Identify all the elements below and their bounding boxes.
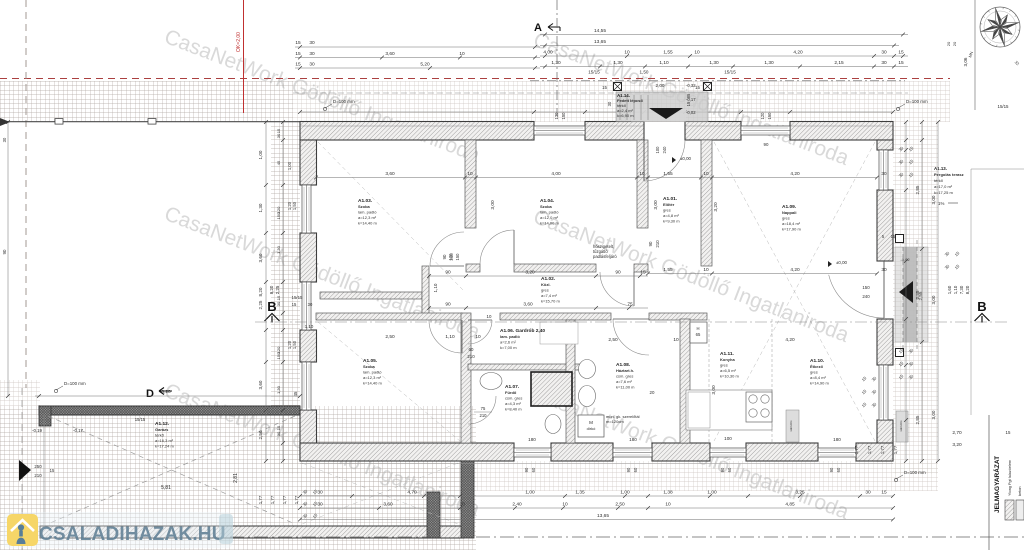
svg-text:A1.13.: A1.13. (934, 166, 947, 171)
room label A1.07 Furdo (505, 384, 522, 412)
svg-text:4,70: 4,70 (407, 490, 417, 496)
svg-text:1,10: 1,10 (445, 334, 455, 340)
corridor top wall b (514, 264, 596, 272)
outer wall bottom segment 2 (551, 443, 613, 461)
svg-text:2,85: 2,85 (915, 185, 920, 194)
svg-text:k=14,00 m: k=14,00 m (540, 221, 559, 226)
legend swatches (1005, 500, 1014, 520)
svg-text:Konyha: Konyha (720, 357, 735, 362)
grid strip left of house (271, 122, 300, 474)
svg-text:60: 60 (633, 467, 638, 472)
svg-text:k=17,90 m: k=17,90 m (782, 227, 801, 232)
svg-text:30: 30 (881, 60, 887, 66)
svg-text:2,40: 2,40 (512, 502, 522, 508)
section marker B left (265, 299, 280, 323)
svg-text:3,06: 3,06 (963, 57, 968, 66)
watermark pattern (161, 25, 852, 524)
svg-text:Pergolás terasz: Pergolás terasz (934, 172, 964, 177)
svg-text:120: 120 (554, 112, 559, 120)
svg-text:a=12,3 m²: a=12,3 m² (363, 375, 382, 380)
right dim line at wall (904, 120, 908, 463)
svg-text:CSALADIHAZAK.HU: CSALADIHAZAK.HU (39, 524, 226, 545)
stamp D=100 bottom right (894, 470, 926, 482)
outer wall bottom segment 3 (652, 443, 710, 461)
wall A1.01|A1.09 (701, 140, 712, 266)
svg-text:30: 30 (2, 137, 7, 142)
door arc A1.07 (468, 396, 496, 424)
svg-text:120: 120 (760, 112, 765, 120)
outer wall top segment 2 (585, 122, 644, 141)
svg-text:3,00: 3,00 (931, 295, 936, 304)
svg-text:k=9,30 m: k=9,30 m (663, 219, 680, 224)
left vertical dim line (7, 122, 9, 396)
svg-text:gres: gres (541, 287, 549, 292)
svg-text:2,00: 2,00 (656, 83, 665, 88)
svg-text:1,77: 1,77 (880, 445, 885, 454)
svg-text:a=6,5 m²: a=6,5 m² (720, 368, 737, 373)
svg-text:1,30: 1,30 (764, 60, 774, 66)
garage dim line top (35, 389, 302, 398)
svg-text:Ytong Pgt falazóelem: Ytong Pgt falazóelem (1008, 460, 1012, 496)
logo background (3, 512, 233, 548)
corridor top wall c (634, 264, 648, 272)
window A1.11 bottom (710, 448, 746, 457)
svg-text:30: 30 (317, 490, 323, 496)
svg-text:1,77: 1,77 (258, 495, 263, 504)
svg-text:1,77: 1,77 (867, 445, 872, 454)
svg-text:Előtér: Előtér (663, 202, 675, 207)
room label A1.12 Garazs (155, 421, 174, 449)
svg-text:100: 100 (724, 436, 732, 441)
svg-text:gres: gres (810, 369, 818, 374)
svg-text:90: 90 (720, 467, 725, 472)
duct H65 (690, 322, 707, 343)
svg-text:1,55: 1,55 (663, 171, 673, 177)
svg-text:13,65: 13,65 (597, 513, 609, 519)
svg-text:2,50: 2,50 (608, 337, 618, 343)
door arc A1.03 (430, 232, 464, 266)
dim chains top left (295, 40, 540, 70)
site boundary line left (0, 121, 300, 123)
arrow mark line end (0, 118, 10, 126)
svg-text:3,60: 3,60 (258, 253, 263, 262)
red dashed property line horizontal (0, 78, 950, 80)
room label A1.03 Szoba (358, 198, 377, 226)
svg-text:90: 90 (626, 467, 631, 472)
outer wall left segment 1 (300, 140, 317, 185)
svg-text:-0,32: -0,32 (686, 83, 696, 88)
svg-text:1,77: 1,77 (893, 445, 898, 454)
grid garage area (0, 406, 476, 550)
svg-text:JELMAGYARÁZAT: JELMAGYARÁZAT (992, 456, 1001, 513)
svg-text:3,60: 3,60 (258, 380, 263, 389)
kitchen sink cab (688, 392, 710, 428)
svg-text:60: 60 (836, 467, 841, 472)
svg-text:dirkó: dirkó (587, 426, 596, 431)
svg-text:1,30: 1,30 (709, 60, 719, 66)
svg-text:3,60: 3,60 (523, 302, 533, 308)
svg-text:4,20: 4,20 (793, 50, 803, 56)
svg-text:k=10,30 m: k=10,30 m (720, 374, 739, 379)
dim chains top (540, 28, 908, 75)
svg-text:90: 90 (648, 241, 653, 246)
svg-text:10: 10 (459, 51, 465, 57)
svg-text:10: 10 (673, 337, 679, 343)
svg-text:k=7,00 m: k=7,00 m (500, 345, 517, 350)
dashdot eaves line (530, 80, 905, 82)
svg-text:15/15: 15/15 (724, 70, 736, 75)
svg-text:1,00: 1,00 (620, 490, 630, 496)
svg-text:4,85: 4,85 (785, 502, 795, 508)
svg-text:60: 60 (531, 467, 536, 472)
svg-text:15: 15 (295, 40, 301, 46)
svg-text:15: 15 (898, 60, 904, 66)
svg-text:30: 30 (276, 133, 281, 138)
svg-text:csm. gres: csm. gres (505, 395, 522, 400)
door arc A1.01 (600, 272, 634, 306)
svg-text:5,81: 5,81 (161, 485, 171, 491)
svg-text:90: 90 (764, 142, 769, 147)
svg-text:k=14,90 m: k=14,90 m (810, 381, 829, 386)
svg-text:150: 150 (561, 112, 566, 120)
svg-text:10: 10 (694, 50, 700, 56)
note szerelotal (606, 414, 640, 424)
window A1.10 right (879, 365, 888, 420)
svg-text:a=4,3 m²: a=4,3 m² (505, 401, 522, 406)
wall A1.03|A1.04 (465, 140, 476, 228)
svg-text:k=14,40 m: k=14,40 m (358, 221, 377, 226)
svg-text:padlásfeljáró: padlásfeljáró (593, 254, 617, 259)
svg-text:1,30: 1,30 (258, 203, 263, 212)
A1.14 canopy area (616, 92, 708, 122)
terrace door arc A1.09 (829, 275, 884, 318)
svg-text:gres: gres (782, 215, 790, 220)
room label A1.11 Konyha (720, 351, 739, 379)
svg-text:150: 150 (862, 285, 870, 290)
svg-text:A: A (534, 22, 542, 34)
svg-text:2,70: 2,70 (952, 430, 962, 436)
svg-text:Nappali: Nappali (782, 210, 796, 215)
section line B-B (255, 321, 1010, 323)
svg-text:m=120cm: m=120cm (606, 419, 624, 424)
room label A1.01 Eloter (663, 196, 680, 224)
svg-text:1,60: 1,60 (947, 285, 952, 294)
svg-text:1,55: 1,55 (663, 50, 673, 56)
outer wall left segment 4 (300, 410, 317, 461)
svg-text:2,25: 2,25 (275, 285, 280, 294)
svg-text:15/15: 15/15 (135, 417, 146, 422)
grid strip right of house (893, 122, 938, 474)
svg-text:15: 15 (295, 62, 301, 68)
svg-text:Étkező: Étkező (810, 364, 823, 369)
svg-text:15: 15 (1006, 430, 1011, 435)
svg-text:B: B (977, 299, 986, 314)
svg-text:csm. gres: csm. gres (616, 373, 633, 378)
svg-text:8,20: 8,20 (965, 285, 970, 294)
svg-text:1,10: 1,10 (305, 324, 314, 329)
svg-text:15: 15 (640, 270, 646, 276)
section marker A (534, 0, 560, 116)
svg-text:250: 250 (34, 464, 42, 469)
svg-text:10: 10 (639, 171, 645, 177)
svg-text:45: 45 (293, 391, 298, 396)
svg-text:10: 10 (467, 171, 473, 177)
wall below house a (427, 492, 440, 538)
svg-text:90: 90 (445, 302, 451, 308)
svg-text:6,20: 6,20 (161, 389, 171, 395)
svg-text:1,30: 1,30 (551, 60, 561, 66)
washer ovals A1.08 (579, 360, 596, 379)
svg-text:a=7,6 m²: a=7,6 m² (616, 379, 633, 384)
svg-text:45: 45 (276, 160, 281, 165)
svg-text:D=100 mm: D=100 mm (333, 99, 355, 104)
stamp D=100 garage (54, 381, 86, 393)
garage corner post (39, 406, 51, 426)
corridor top wall a (466, 264, 480, 272)
svg-text:a=7,4 m²: a=7,4 m² (541, 293, 558, 298)
svg-text:1,77: 1,77 (282, 495, 287, 504)
svg-text:lam. padló: lam. padló (500, 334, 520, 339)
svg-text:3,00: 3,00 (931, 195, 936, 204)
svg-text:4,00: 4,00 (543, 50, 553, 56)
compass rose (968, 7, 1021, 67)
svg-text:5,20: 5,20 (420, 62, 430, 68)
svg-text:15: 15 (891, 234, 896, 239)
svg-text:lam. padló: lam. padló (540, 209, 559, 214)
svg-text:30: 30 (276, 431, 281, 436)
svg-text:1,50: 1,50 (292, 340, 297, 349)
svg-text:D: D (146, 388, 154, 400)
svg-text:15: 15 (295, 51, 301, 57)
left dim column outer (258, 120, 268, 463)
svg-text:150: 150 (276, 212, 281, 219)
sill line below bottom wall (300, 463, 893, 465)
svg-text:a=16,3 m²: a=16,3 m² (155, 438, 174, 443)
svg-text:1,35: 1,35 (575, 490, 585, 496)
terrace post top (896, 235, 904, 243)
svg-text:90: 90 (524, 467, 529, 472)
svg-text:OK=2,00: OK=2,00 (236, 32, 242, 52)
svg-text:10: 10 (624, 50, 630, 56)
door arc entrance (644, 140, 685, 181)
room label A1.10 Etkezo (810, 358, 829, 386)
svg-text:210: 210 (34, 473, 42, 478)
svg-text:térkő: térkő (934, 178, 944, 183)
room label A1.08 Haztart (616, 362, 635, 390)
corridor left stub wall (422, 266, 429, 315)
svg-text:120: 120 (276, 206, 281, 213)
svg-text:4,20: 4,20 (790, 267, 800, 273)
svg-text:1,50: 1,50 (292, 201, 297, 210)
section marker B right (975, 299, 990, 323)
svg-text:1%: 1% (938, 201, 944, 206)
svg-text:4,00: 4,00 (551, 171, 561, 177)
room diagonal A1.03 (318, 142, 463, 290)
svg-text:75: 75 (481, 406, 486, 411)
svg-text:Garázs: Garázs (155, 427, 169, 432)
small stamp box bottom (786, 410, 799, 442)
svg-text:240: 240 (862, 294, 870, 299)
svg-text:20: 20 (946, 41, 951, 46)
svg-text:1,00: 1,00 (525, 490, 535, 496)
svg-text:15: 15 (602, 85, 607, 90)
lower area dims (385, 240, 795, 359)
window left wall middle (302, 282, 311, 330)
outer wall top segment 4 (790, 122, 893, 141)
svg-text:3,20: 3,20 (713, 202, 719, 212)
svg-text:30: 30 (881, 267, 887, 273)
svg-text:30: 30 (317, 502, 323, 508)
corridor bottom wall b (500, 313, 611, 320)
A1.13 label (934, 166, 964, 206)
svg-text:15/15: 15/15 (588, 70, 600, 75)
svg-text:65: 65 (696, 332, 701, 337)
stamp D=100 top right (896, 99, 928, 111)
svg-text:a=12,3 m²: a=12,3 m² (358, 215, 377, 220)
svg-text:15: 15 (881, 490, 887, 496)
terrace post bottom (896, 349, 904, 357)
outer wall right segment 4 (877, 420, 893, 461)
room label A1.06 Gardrob (500, 328, 545, 350)
svg-text:8,20: 8,20 (258, 287, 263, 296)
svg-text:1,77: 1,77 (294, 495, 299, 504)
svg-text:120: 120 (276, 346, 281, 353)
grid band top (0, 81, 293, 122)
corridor dims (427, 270, 648, 310)
svg-text:1,55: 1,55 (663, 267, 673, 273)
svg-text:Fürdő: Fürdő (505, 390, 517, 395)
A1.14 label (617, 93, 643, 118)
svg-text:2,85: 2,85 (915, 290, 920, 299)
garage gate triangle (19, 460, 31, 481)
svg-text:210: 210 (480, 413, 488, 418)
svg-text:30: 30 (308, 302, 313, 307)
svg-text:3,25: 3,25 (795, 490, 805, 496)
svg-text:10: 10 (703, 267, 709, 273)
svg-text:30: 30 (881, 50, 887, 56)
svg-text:-0,19: -0,19 (32, 428, 43, 433)
svg-text:90: 90 (615, 270, 621, 276)
svg-text:15: 15 (686, 101, 691, 106)
right dim columns (915, 120, 940, 463)
svg-text:Szoba: Szoba (363, 364, 376, 369)
sink A1.07 (480, 373, 502, 390)
svg-text:90: 90 (2, 249, 7, 254)
svg-text:4,20: 4,20 (785, 337, 795, 343)
svg-text:7,30: 7,30 (959, 285, 964, 294)
svg-text:2,81: 2,81 (233, 473, 239, 483)
interior dims row2 nappali (646, 267, 887, 275)
svg-text:H: H (696, 326, 699, 331)
room label A1.04 Szoba (540, 198, 559, 226)
svg-text:D=100 mm: D=100 mm (904, 470, 926, 475)
svg-text:180: 180 (528, 437, 536, 442)
svg-text:15: 15 (276, 128, 281, 133)
shower A1.07 (531, 372, 572, 406)
svg-text:Szoba: Szoba (540, 204, 553, 209)
wall below A1.03 (320, 292, 422, 299)
svg-text:150: 150 (276, 352, 281, 359)
svg-text:M: M (589, 420, 593, 425)
svg-text:3,00: 3,00 (653, 200, 659, 210)
svg-text:10: 10 (487, 314, 492, 319)
svg-text:30: 30 (309, 51, 315, 57)
svg-text:k=14,40 m: k=14,40 m (363, 381, 382, 386)
room label A1.05 Szoba (363, 358, 382, 386)
svg-text:±0,00: ±0,00 (836, 260, 848, 265)
terrace triangle (899, 281, 913, 303)
svg-text:10: 10 (665, 502, 671, 508)
garage diagonals (48, 416, 295, 524)
svg-text:1,00: 1,00 (258, 150, 263, 159)
svg-text:75: 75 (627, 302, 633, 308)
level mark nappali (828, 260, 848, 267)
svg-text:a=4,8 m²: a=4,8 m² (663, 213, 680, 218)
svg-text:85: 85 (686, 93, 691, 98)
door arc A1.05 (429, 320, 462, 353)
svg-text:D=100 mm: D=100 mm (64, 381, 86, 386)
svg-text:150: 150 (455, 253, 460, 261)
svg-text:30: 30 (309, 62, 315, 68)
level mark entrance (672, 156, 692, 163)
svg-text:süti kőris: süti kőris (899, 420, 903, 432)
garage top wall (39, 406, 300, 415)
svg-text:-0,17: -0,17 (73, 428, 84, 433)
wall A1.06|A1.07 (468, 364, 580, 370)
svg-text:a=8,4 m²: a=8,4 m² (810, 375, 827, 380)
wardrobe A1.06 rect (540, 322, 578, 344)
svg-text:térkő: térkő (155, 432, 165, 437)
red vertical line OK=2,00 (243, 0, 245, 113)
room label A1.09 Nappali (782, 204, 801, 232)
window A1.08 bottom (613, 448, 652, 457)
svg-text:2,25: 2,25 (258, 300, 263, 309)
svg-text:±0,00: ±0,00 (680, 156, 692, 161)
dim line over top wall (298, 110, 895, 114)
grid strip below house (300, 461, 938, 491)
svg-text:30: 30 (309, 40, 315, 46)
window A1.04 top (534, 126, 585, 135)
svg-text:1,00: 1,00 (707, 490, 717, 496)
svg-text:13,65: 13,65 (594, 39, 606, 45)
svg-text:k=6,90 m: k=6,90 m (617, 113, 634, 118)
svg-text:1,10: 1,10 (659, 60, 669, 66)
section marker D (146, 388, 172, 401)
svg-text:15: 15 (292, 302, 297, 307)
svg-text:1,30: 1,30 (276, 385, 281, 394)
corridor bottom wall c (649, 313, 707, 320)
svg-text:a=17,0 m²: a=17,0 m² (934, 184, 953, 189)
window A1.09 right (879, 150, 888, 190)
kitchen zone dashed lines (708, 319, 710, 443)
door arc A1.04 (480, 230, 514, 264)
entrance level marks (656, 83, 697, 115)
wall A1.08|A1.11 (680, 319, 690, 443)
logo right tab (219, 514, 233, 544)
svg-text:k=8,40 m: k=8,40 m (505, 407, 522, 412)
svg-text:k=15,70 m: k=15,70 m (541, 299, 560, 304)
svg-text:15: 15 (276, 295, 281, 300)
svg-text:3,00: 3,00 (711, 385, 717, 395)
svg-text:10: 10 (562, 502, 568, 508)
legend box line (988, 415, 990, 550)
wall A1.04|A1.01 (637, 140, 648, 228)
svg-text:20: 20 (650, 390, 655, 395)
svg-text:1,77: 1,77 (270, 495, 275, 504)
window A1.10 bottom (818, 448, 856, 457)
svg-text:2,50: 2,50 (258, 430, 263, 439)
svg-text:10: 10 (475, 334, 481, 340)
